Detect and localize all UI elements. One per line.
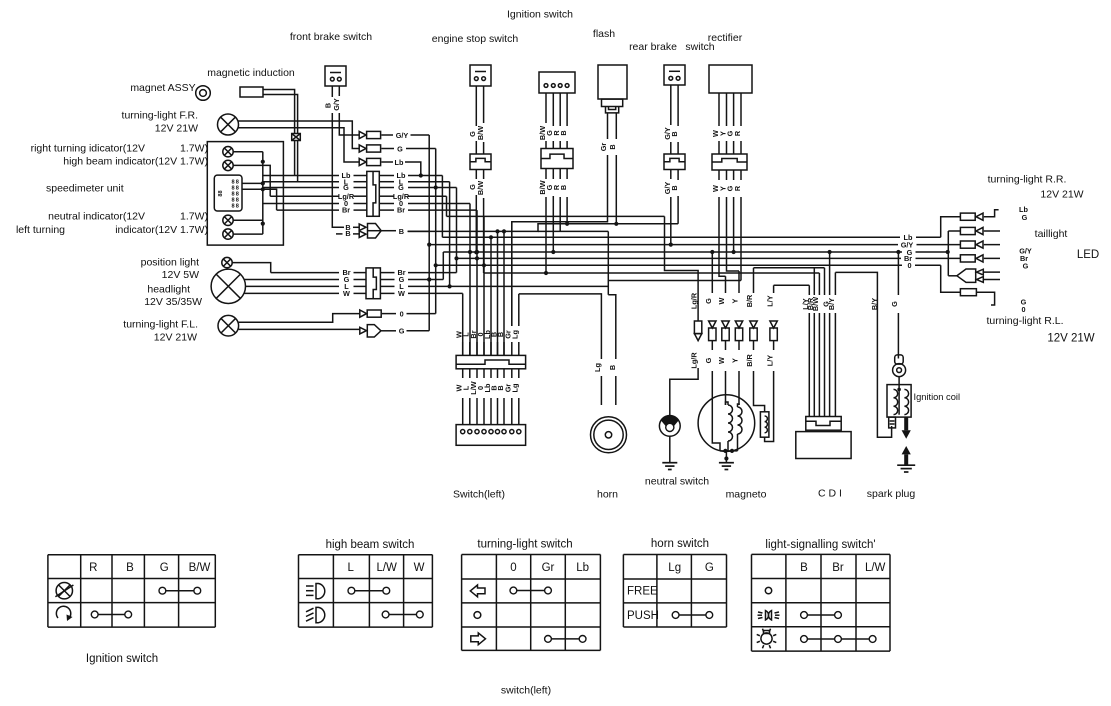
connector B/R plug xyxy=(750,321,757,341)
svg-text:B/Y: B/Y xyxy=(870,298,879,310)
svg-text:12V 21W: 12V 21W xyxy=(1047,333,1094,345)
symbol: off small circle xyxy=(765,587,771,593)
svg-text:position light: position light xyxy=(141,257,199,269)
wire sw L low a xyxy=(469,369,471,378)
wire sw W mid xyxy=(462,342,464,355)
wire CDI wire B/Y lower xyxy=(834,313,836,417)
svg-text:G: G xyxy=(704,298,713,304)
svg-text:light-signalling switch': light-signalling switch' xyxy=(765,539,875,551)
wire vertical sw Br xyxy=(476,210,478,355)
svg-text:Lg: Lg xyxy=(511,384,520,393)
node v484 0 tap xyxy=(482,263,486,267)
symbol: position lamp xyxy=(758,611,780,620)
svg-text:G: G xyxy=(343,183,349,192)
svg-text:LED: LED xyxy=(1077,249,1099,261)
wire speedo h c xyxy=(242,189,277,210)
connector tail conn A xyxy=(960,213,983,220)
wire bus G/Y b xyxy=(917,244,961,246)
wire F.L. wire G xyxy=(239,328,360,330)
horn xyxy=(591,417,627,453)
svg-text:neutral indicator(12V: neutral indicator(12V xyxy=(48,211,145,223)
wire speedo out Lb b xyxy=(354,175,367,177)
connector R.L. box xyxy=(960,289,976,296)
wire front brake G/Y lower xyxy=(339,113,359,135)
wire row 0 right xyxy=(408,203,470,205)
ground spark plug ground xyxy=(897,465,915,472)
wire B/R upper xyxy=(753,268,755,293)
rectifier U1 xyxy=(709,65,752,93)
switch S1 front brake switch xyxy=(325,66,346,86)
wire magnetic induction wire 1 lower xyxy=(294,141,296,176)
wire conn out G xyxy=(379,187,394,189)
wire CDI wire x lower xyxy=(824,313,826,417)
wire conn out L xyxy=(379,181,394,183)
svg-text:B/W: B/W xyxy=(476,181,485,195)
speedometer unit box xyxy=(207,142,283,246)
wire tail D out xyxy=(984,257,1000,259)
wire rectifier R upper xyxy=(740,93,742,126)
wire B in 2 xyxy=(336,233,343,235)
connector bullet 0 xyxy=(360,310,381,317)
wire rear brake G/Y mid xyxy=(670,142,672,154)
wire ignition G upper xyxy=(552,93,554,126)
svg-text:B: B xyxy=(126,562,134,574)
svg-text:88: 88 xyxy=(218,190,224,196)
wire ignition R mid xyxy=(559,141,561,149)
wire engine stop G upper xyxy=(475,86,477,126)
wire B/R to pickup xyxy=(754,371,765,412)
svg-text:L/Y: L/Y xyxy=(765,355,774,366)
svg-text:G: G xyxy=(1023,262,1029,271)
svg-text:Lg: Lg xyxy=(668,562,681,574)
svg-text:C D I: C D I xyxy=(818,488,842,500)
svg-text:neutral switch: neutral switch xyxy=(645,476,709,488)
wire magneto W upper xyxy=(725,276,727,293)
wire vertical sw L xyxy=(469,204,471,356)
svg-text:turning-light F.L.: turning-light F.L. xyxy=(123,319,198,331)
svg-text:horn: horn xyxy=(597,489,618,501)
neutral switch xyxy=(659,416,680,437)
wire sw Lg mid xyxy=(518,342,520,355)
wire CDI wire x upper xyxy=(824,268,826,295)
connector bullet G lower xyxy=(360,325,381,337)
svg-text:B/R: B/R xyxy=(745,294,754,307)
wire L/Y link xyxy=(774,284,810,286)
wire speedo out L b xyxy=(354,181,367,183)
wire flash Gr upper xyxy=(607,113,609,139)
svg-text:magneto: magneto xyxy=(726,489,767,501)
node engine stop G junction xyxy=(474,250,478,254)
wire rectifier G upper xyxy=(733,93,735,126)
wire twin out 2 xyxy=(983,279,1000,281)
wire sw 0 low a xyxy=(483,369,485,378)
node v477 Br tap xyxy=(475,256,479,260)
lamp left turning indicator xyxy=(223,229,233,239)
node coil top node xyxy=(897,388,901,392)
svg-text:G/Y: G/Y xyxy=(396,131,409,140)
connector LED twin bullet xyxy=(957,269,983,282)
wire row R link xyxy=(608,280,741,282)
wire speedo h b xyxy=(242,182,263,184)
lamp right turning indicator xyxy=(223,147,233,157)
svg-text:1.7W): 1.7W) xyxy=(180,211,208,223)
wire speedo out Lg/R b xyxy=(354,195,367,197)
ignition coil terminal xyxy=(893,355,906,377)
svg-text:switch(left): switch(left) xyxy=(501,685,551,697)
wire hl L right xyxy=(408,285,608,287)
svg-text:Lg/R: Lg/R xyxy=(690,292,699,309)
svg-text:L/W: L/W xyxy=(865,562,886,574)
svg-text:W: W xyxy=(414,562,425,574)
wire vertical sw Gr xyxy=(511,222,513,326)
wire magneto W mid xyxy=(725,341,727,350)
connector switch-left lower block xyxy=(456,425,525,446)
wire F.R. lamp wire 2 xyxy=(238,128,359,162)
wire bus Br a xyxy=(457,257,902,259)
symbol: key on xyxy=(56,606,70,618)
wire sw B low b xyxy=(503,398,505,425)
svg-text:B: B xyxy=(559,130,568,135)
wire magneto G mid xyxy=(711,341,713,350)
node v456 Br tap xyxy=(454,256,458,260)
wire speedo harness v1 xyxy=(262,152,264,234)
connector magnetic induction plug xyxy=(292,134,301,141)
svg-text:12V 35/35W: 12V 35/35W xyxy=(144,296,202,308)
wire CDI wire B/Y upper xyxy=(834,272,836,295)
svg-text:B/Y: B/Y xyxy=(827,298,836,310)
table light-signalling switch xyxy=(752,554,891,651)
wire 0 out xyxy=(407,313,436,315)
wire bus Br b xyxy=(916,257,961,259)
wire speedo out G xyxy=(263,187,339,189)
svg-text:high beam indicator(12V 1.7W): high beam indicator(12V 1.7W) xyxy=(63,156,208,168)
wire CDI wire B/W upper xyxy=(818,273,820,295)
svg-text:G: G xyxy=(160,562,169,574)
svg-text:Lb: Lb xyxy=(576,562,589,574)
wire bus 0 b xyxy=(915,264,941,266)
svg-text:G: G xyxy=(397,144,403,153)
wire sw 0 mid xyxy=(483,342,485,355)
node Lb tap xyxy=(419,173,423,177)
wire rear brake G/Y to G/Y bus xyxy=(670,197,672,245)
svg-text:B/R: B/R xyxy=(745,353,754,366)
wire hl L b xyxy=(354,285,367,287)
svg-text:R: R xyxy=(733,185,742,191)
node ignition B junction xyxy=(565,222,569,226)
wire G/Y out xyxy=(411,134,430,136)
spark plug xyxy=(902,446,911,465)
connector ignition switch plug xyxy=(541,149,573,169)
node rear brake G/Y junction xyxy=(669,243,673,247)
symbol: left arrow xyxy=(470,585,485,597)
node hl L tap xyxy=(448,284,452,288)
wire tail C out xyxy=(984,244,1000,246)
node coil G tap xyxy=(896,250,900,254)
wire vertical sw W xyxy=(462,293,464,355)
wire ignition B upper xyxy=(566,93,568,126)
wire speedo out 0 xyxy=(263,203,339,205)
svg-text:0: 0 xyxy=(400,309,404,318)
wire hl Br right xyxy=(408,272,457,274)
wire conn out Lb xyxy=(379,175,394,177)
svg-text:right turning idicator(12V: right turning idicator(12V xyxy=(31,143,145,155)
wire rectifier Y upper xyxy=(726,93,728,126)
wire rectifier Y to magneto Y xyxy=(727,197,740,271)
ground neutral ground xyxy=(662,463,677,470)
node row G tap xyxy=(434,185,438,189)
wire speedo out G b xyxy=(354,187,367,189)
wire bus Lb b xyxy=(916,236,941,238)
svg-text:Ignition switch: Ignition switch xyxy=(507,9,573,21)
symbol: center off xyxy=(474,612,481,619)
wire G out low xyxy=(407,330,430,332)
connector magneto Y plug xyxy=(735,321,742,341)
wire vertical L down xyxy=(449,182,451,287)
connector bullet G/Y xyxy=(359,131,380,138)
node v469 G tap xyxy=(468,250,472,254)
wire speedo out L xyxy=(263,181,339,183)
CDI unit xyxy=(796,432,851,459)
wire speedo out 0 b xyxy=(354,203,367,205)
wire ignition B mid xyxy=(566,141,568,149)
node v497 B tap xyxy=(495,229,499,233)
wire engine stop G lower xyxy=(475,170,477,180)
wire coil G upper xyxy=(897,252,899,295)
node speedo node d xyxy=(261,222,265,226)
wire ignition B lower xyxy=(566,169,568,180)
connector tail conn B xyxy=(960,227,983,234)
wire speedo out Br xyxy=(277,209,339,211)
sensor magnet ASSY xyxy=(196,86,211,101)
symbol: high beam xyxy=(306,584,325,599)
svg-text:B: B xyxy=(670,131,679,136)
wire row Lb right xyxy=(408,175,442,177)
node magneto G tap xyxy=(710,250,714,254)
wire conn out Lg/R xyxy=(379,195,394,197)
wire neutral to ground xyxy=(669,436,671,462)
svg-text:B/W: B/W xyxy=(189,562,211,574)
node v504 B tap xyxy=(502,229,506,233)
wire hl out Br xyxy=(380,272,394,274)
node magneto node 2 xyxy=(730,449,734,453)
svg-text:B/W: B/W xyxy=(811,297,820,311)
wire sw B low a xyxy=(503,369,505,378)
wire rectifier R lower xyxy=(740,170,742,180)
wire vertical sw Lb xyxy=(490,237,492,355)
wire ignition B/W upper xyxy=(545,93,547,123)
wire tail B out xyxy=(984,230,1000,232)
svg-text:front brake switch: front brake switch xyxy=(290,31,372,43)
svg-text:turning-light R.R.: turning-light R.R. xyxy=(988,174,1067,186)
wire horn Lg wire xyxy=(600,358,602,360)
connector magneto W plug xyxy=(722,321,729,341)
wire vertical R-horn link xyxy=(607,231,609,294)
wire B/Y link xyxy=(835,272,891,437)
wire vertical sw 0 xyxy=(483,216,485,355)
wire G stub xyxy=(381,148,394,150)
svg-text:B: B xyxy=(608,144,617,149)
node rectifier G junction xyxy=(732,250,736,254)
lamp turning-light F.R. xyxy=(218,114,239,135)
speedometer LCD display xyxy=(214,175,242,211)
wire twin out 1 xyxy=(983,271,1000,273)
wire sw Lg low b xyxy=(518,398,520,425)
wire Lb to conn A xyxy=(941,217,961,238)
connector CDI plug xyxy=(806,417,841,431)
wire sw Lb mid xyxy=(490,342,492,355)
svg-text:B: B xyxy=(399,227,404,236)
svg-text:B: B xyxy=(800,562,808,574)
wire G to conn B twin xyxy=(948,230,960,232)
wire B/R mid xyxy=(753,341,755,350)
switch S4 rear brake switch xyxy=(664,65,685,85)
connector bullet Lb xyxy=(359,158,380,165)
wire coil G low xyxy=(898,377,900,385)
wire hl out W xyxy=(380,292,394,294)
wire flash Gr lower xyxy=(512,155,608,326)
wire lamp4 wire xyxy=(233,233,263,235)
wire horn B wire b xyxy=(615,376,617,405)
svg-text:W: W xyxy=(717,297,726,304)
node speedo node a xyxy=(261,160,265,164)
svg-text:W: W xyxy=(398,289,405,298)
lamp neutral indicator xyxy=(223,215,233,225)
wire ignition B/W mid xyxy=(545,141,547,149)
wire sw L/W low a xyxy=(476,369,478,378)
wire bus G/Y a xyxy=(429,244,898,246)
wire sw B mid xyxy=(503,342,505,355)
table high beam switch xyxy=(299,555,433,627)
svg-text:engine stop switch: engine stop switch xyxy=(432,33,519,45)
wire magneto coil2 down xyxy=(737,434,739,451)
wire magneto bottom bar xyxy=(720,450,738,452)
wire horn B feed xyxy=(608,295,616,359)
svg-text:high beam switch: high beam switch xyxy=(326,539,415,551)
svg-text:Y: Y xyxy=(731,358,740,363)
wire G low stub xyxy=(381,330,396,332)
node v477 G tap xyxy=(475,250,479,254)
wire hl out L xyxy=(380,285,394,287)
svg-text:12V 21W: 12V 21W xyxy=(155,123,198,135)
wire lamp1 wire xyxy=(233,151,263,153)
wire conn out Br xyxy=(379,209,394,211)
svg-text:headlight: headlight xyxy=(147,284,190,296)
wire row L right xyxy=(408,181,450,183)
svg-text:B: B xyxy=(559,185,568,190)
svg-text:12V 21W: 12V 21W xyxy=(1040,189,1083,201)
wire Lb stub xyxy=(381,161,393,163)
connector rectifier plug xyxy=(712,154,747,170)
wire position light wire xyxy=(232,263,271,273)
wire ignition B/W lower xyxy=(545,169,547,180)
wire F.L. wire 0 xyxy=(239,314,360,323)
lamp turning-light F.L. xyxy=(218,315,239,336)
lamp headlight xyxy=(211,269,245,303)
wire rectifier G lower xyxy=(733,170,735,180)
wire G vert right xyxy=(947,231,949,276)
connector rear brake switch plug xyxy=(664,154,685,170)
wire rectifier G to G bus xyxy=(733,197,735,252)
svg-text:horn switch: horn switch xyxy=(651,538,709,550)
connector neutral plug xyxy=(694,321,701,341)
svg-text:1.7W): 1.7W) xyxy=(180,143,208,155)
svg-text:Lg/R: Lg/R xyxy=(690,352,699,369)
wire hl Br b xyxy=(354,272,367,274)
svg-text:turning-light R.L.: turning-light R.L. xyxy=(986,315,1063,327)
wire hl G up xyxy=(442,252,444,280)
wire sw L mid xyxy=(469,342,471,355)
lamp high beam indicator xyxy=(223,160,233,170)
wire vertical sw Lg top xyxy=(518,294,520,326)
wire vertical sw B2 xyxy=(503,231,505,355)
svg-text:W: W xyxy=(343,289,350,298)
svg-text:Ignition switch: Ignition switch xyxy=(86,653,158,665)
wire magneto G upper xyxy=(711,252,713,293)
svg-text:rear brake: rear brake xyxy=(629,41,677,53)
wire ignition R lower xyxy=(559,169,561,180)
svg-text:G: G xyxy=(399,327,405,336)
wire rear brake B to B row xyxy=(677,196,679,224)
svg-text:Br: Br xyxy=(832,562,844,574)
svg-text:G: G xyxy=(704,357,713,363)
wire engine stop B/W to B/W row xyxy=(483,198,485,273)
wire rectifier Y mid xyxy=(726,141,728,154)
node hl G tap xyxy=(427,277,431,281)
wire ignition G mid xyxy=(552,141,554,149)
wire rectifier W mid xyxy=(718,141,720,154)
wire hl G right xyxy=(408,279,443,281)
svg-text:L/Y: L/Y xyxy=(765,295,774,306)
wire row Br right xyxy=(408,209,477,211)
wire vertical G/Y-G net xyxy=(428,135,430,331)
wire sw Gr low b xyxy=(511,398,513,425)
magneto xyxy=(698,395,755,452)
wire CDI wire G lower xyxy=(829,313,831,417)
wire sw W low b xyxy=(462,398,464,425)
wire rectifier W upper xyxy=(718,93,720,126)
svg-text:Br: Br xyxy=(397,206,405,215)
svg-text:taillight: taillight xyxy=(1035,228,1068,240)
wire CDI wire B/R lower xyxy=(813,313,815,417)
svg-text:Br: Br xyxy=(342,206,350,215)
connector headlight connector xyxy=(366,268,380,299)
wire speedo out Lg/R xyxy=(270,195,339,197)
wire vertical G-0 net xyxy=(435,149,437,314)
wire magneto Y upper xyxy=(738,271,740,293)
node G right tap xyxy=(946,250,950,254)
wire Lg/R link xyxy=(665,216,699,321)
svg-text:G: G xyxy=(398,183,404,192)
connector magneto G plug xyxy=(709,321,716,341)
svg-text:R: R xyxy=(89,562,97,574)
node magneto node 1 xyxy=(723,449,727,453)
wire R.L. out xyxy=(976,292,994,305)
wire vertical Lb down xyxy=(441,176,443,238)
wire sw B low a xyxy=(497,369,499,378)
svg-text:FREE: FREE xyxy=(627,586,658,598)
connector bullet G xyxy=(359,145,380,152)
wire rectifier R down xyxy=(740,197,742,281)
wire hl out G xyxy=(380,279,394,281)
svg-text:0: 0 xyxy=(510,562,516,574)
wire sw L/W low b xyxy=(476,398,478,425)
svg-text:magnetic induction: magnetic induction xyxy=(207,67,295,79)
wire magneto coil1 down xyxy=(727,441,729,451)
wire flash B upper xyxy=(615,113,617,139)
svg-text:left turning: left turning xyxy=(16,224,65,236)
wire magnetic induction wire 2 lower xyxy=(297,141,299,182)
wire F.R. lamp wire 1 xyxy=(239,121,360,149)
